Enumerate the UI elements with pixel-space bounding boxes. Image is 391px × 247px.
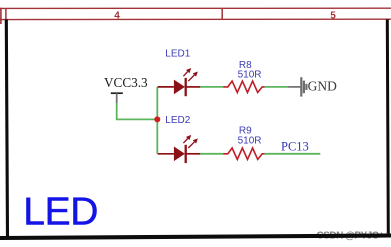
power symbol VCC3.3 bar bbox=[111, 92, 123, 94]
svg-text:PC13: PC13 bbox=[281, 139, 309, 153]
svg-text:LED: LED bbox=[23, 190, 98, 233]
svg-text:GND: GND bbox=[308, 79, 337, 94]
svg-text:510R: 510R bbox=[238, 135, 262, 146]
wire: VCC drop to bus bbox=[117, 103, 158, 119]
sheet border: zone divider tick (center) bbox=[221, 8, 223, 19]
power symbol VCC3.3 pin stub bbox=[116, 93, 118, 103]
sheet border: zone divider tick (left) bbox=[5, 8, 7, 19]
svg-text:LED1: LED1 bbox=[165, 49, 190, 60]
sheet border: red outer edge line (left) bbox=[0, 8, 2, 24]
wire: R8 to GND bbox=[264, 86, 288, 88]
svg-text:VCC3.3: VCC3.3 bbox=[104, 75, 148, 90]
LED LED1 bbox=[158, 68, 201, 96]
svg-text:5: 5 bbox=[330, 10, 336, 21]
resistor R9 bbox=[223, 148, 264, 159]
wire: LED1 to R8 bbox=[200, 86, 223, 88]
svg-text:510R: 510R bbox=[238, 70, 262, 81]
sheet border: right black border bbox=[387, 19, 388, 233]
wire: LED2 to R9 bbox=[200, 153, 223, 155]
junction dot bbox=[154, 116, 160, 122]
svg-text:4: 4 bbox=[114, 10, 120, 21]
wire: R9 to PC13 net bbox=[264, 153, 320, 155]
sheet border: left black border bbox=[6, 19, 7, 239]
resistor R8 bbox=[223, 81, 264, 92]
sheet border: bottom black border bbox=[0, 236, 391, 239]
wire: vertical bus LED1 to LED2 bbox=[156, 87, 158, 154]
sheet border: ruler band bottom line bbox=[0, 18, 391, 20]
LED LED2 bbox=[158, 135, 201, 163]
ground GND symbol bbox=[288, 77, 306, 96]
sheet border: ruler band top line bbox=[0, 7, 391, 9]
svg-text:LED2: LED2 bbox=[165, 115, 190, 126]
